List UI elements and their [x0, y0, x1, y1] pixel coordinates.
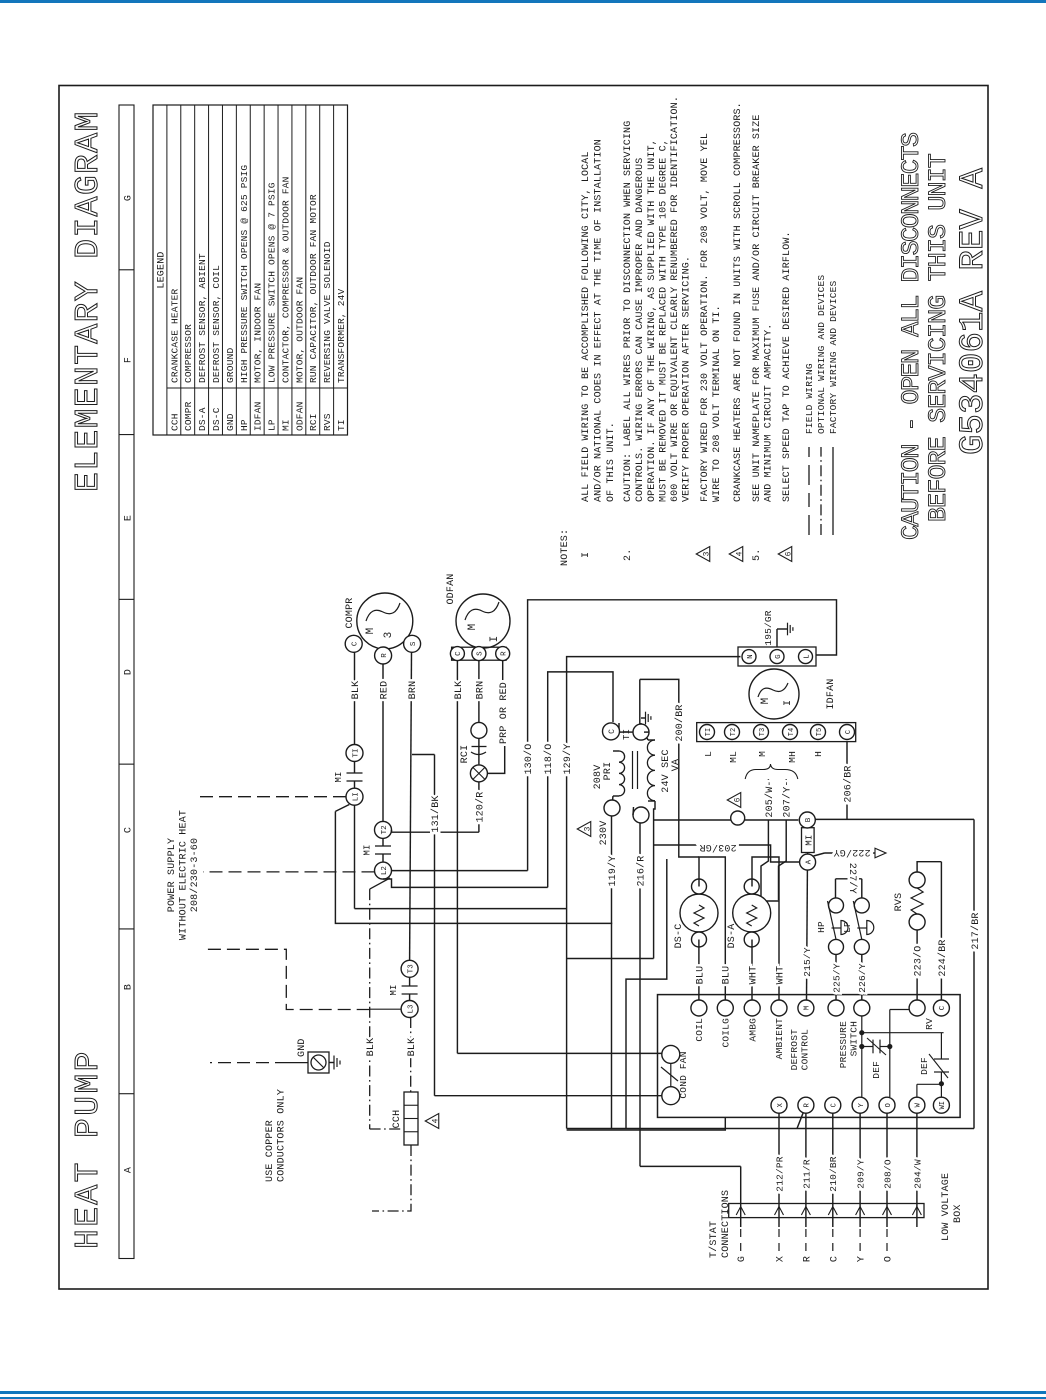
svg-text:L3: L3: [407, 1004, 415, 1014]
svg-text:WHT: WHT: [748, 966, 759, 985]
svg-text:203/GR: 203/GR: [699, 841, 736, 853]
svg-text:G: G: [775, 654, 783, 659]
svg-text:AMBIENT: AMBIENT: [774, 1018, 785, 1059]
svg-text:S: S: [477, 651, 485, 656]
svg-text:R: R: [381, 653, 389, 658]
svg-text:DS-A: DS-A: [197, 407, 208, 431]
svg-text:R: R: [802, 1256, 813, 1262]
svg-text:TI: TI: [352, 748, 360, 757]
svg-text:DEF: DEF: [919, 1057, 930, 1075]
svg-text:L: L: [803, 654, 811, 659]
svg-text:MI: MI: [804, 834, 814, 845]
svg-text:GND: GND: [297, 1038, 308, 1057]
svg-text:POWER SUPPLY: POWER SUPPLY: [167, 838, 178, 912]
svg-text:Y: Y: [858, 1102, 866, 1107]
svg-text:MOTOR, INDOOR FAN: MOTOR, INDOOR FAN: [253, 283, 264, 383]
svg-text:TI: TI: [622, 729, 632, 740]
svg-text:226/Y: 226/Y: [857, 963, 868, 993]
svg-text:COMPRESSOR: COMPRESSOR: [183, 324, 194, 383]
svg-text:RED: RED: [379, 681, 390, 700]
svg-text:T4: T4: [788, 728, 796, 736]
svg-text:BLK: BLK: [351, 681, 362, 700]
svg-text:WIRE TO 208 VOLT TERMINAL ON T: WIRE TO 208 VOLT TERMINAL ON TI.: [712, 305, 723, 502]
svg-text:TRANSFORMER, 24V: TRANSFORMER, 24V: [336, 288, 347, 383]
svg-text:CONTROLS. WIRING ERRORS CAN C: CONTROLS. WIRING ERRORS CAN CAUSE IMPROP…: [635, 158, 646, 502]
svg-text:RUN CAPACITOR, OUTDOOR FAN MOT: RUN CAPACITOR, OUTDOOR FAN MOTOR: [308, 194, 319, 383]
svg-text:212/PR: 212/PR: [774, 1156, 785, 1192]
svg-text:VA: VA: [671, 759, 682, 771]
svg-text:205/W-: 205/W-: [764, 780, 776, 817]
svg-text:R: R: [501, 651, 509, 656]
svg-text:T2: T2: [381, 825, 389, 834]
svg-text:COND FAN: COND FAN: [678, 1051, 689, 1098]
svg-text:F: F: [124, 357, 135, 363]
svg-text:207/Y-: 207/Y-: [782, 780, 794, 817]
svg-text:CONTACTOR, COMPRESSOR & OUTDOO: CONTACTOR, COMPRESSOR & OUTDOOR FAN: [280, 176, 291, 383]
svg-text:T5: T5: [816, 728, 824, 736]
svg-text:COMPR: COMPR: [345, 597, 356, 628]
svg-text:HP: HP: [816, 921, 827, 933]
svg-text:3: 3: [383, 632, 395, 639]
svg-text:OF THIS UNIT.: OF THIS UNIT.: [606, 422, 617, 502]
svg-text:IDFAN: IDFAN: [253, 401, 264, 431]
svg-text:MOTOR, OUTDOOR FAN: MOTOR, OUTDOOR FAN: [294, 277, 305, 383]
svg-text:LI: LI: [352, 792, 360, 801]
svg-text:222/GY: 222/GY: [833, 846, 870, 858]
svg-text:M: M: [365, 628, 377, 635]
svg-text:G: G: [124, 195, 135, 201]
svg-text:M: M: [804, 1005, 812, 1010]
svg-text:MI: MI: [389, 984, 399, 995]
svg-text:CCH: CCH: [169, 413, 180, 431]
svg-text:216/R: 216/R: [635, 855, 647, 886]
svg-text:211/R: 211/R: [801, 1159, 812, 1189]
svg-text:OPTIONAL WIRING AND DEVICES: OPTIONAL WIRING AND DEVICES: [816, 275, 827, 434]
svg-text:MUST BE REMOVED IT MUST BE REP: MUST BE REMOVED IT MUST BE REPLACED WITH…: [659, 139, 670, 502]
svg-text:REVERSING VALVE SOLENOID: REVERSING VALVE SOLENOID: [322, 241, 333, 383]
svg-text:RV: RV: [924, 1018, 935, 1030]
svg-text:MI: MI: [334, 771, 344, 782]
svg-text:ODFAN: ODFAN: [294, 401, 305, 431]
svg-text:C: C: [455, 651, 463, 656]
svg-text:B: B: [805, 817, 813, 822]
svg-text:BRN: BRN: [408, 681, 419, 700]
svg-text:118/O: 118/O: [543, 743, 555, 774]
svg-text:224/BR: 224/BR: [937, 939, 949, 976]
svg-text:WHT: WHT: [775, 966, 786, 985]
svg-text:Y: Y: [857, 1256, 868, 1262]
svg-text:N: N: [747, 654, 755, 659]
svg-text:WITHOUT ELECTRIC HEAT: WITHOUT ELECTRIC HEAT: [179, 810, 190, 940]
svg-text:210/BR: 210/BR: [828, 1156, 839, 1192]
svg-text:L2: L2: [381, 866, 389, 875]
svg-text:CONNECTIONS: CONNECTIONS: [721, 1190, 732, 1258]
svg-text:CAUTION - OPEN ALL DISCONNECTS: CAUTION - OPEN ALL DISCONNECTS: [897, 133, 926, 540]
svg-text:G534061A REV A: G534061A REV A: [955, 167, 993, 455]
svg-text:ALL FIELD WIRING TO BE ACCOMPL: ALL FIELD WIRING TO BE ACCOMPLISHED FOLL…: [581, 151, 592, 502]
svg-text:MI: MI: [280, 419, 291, 431]
svg-text:ML: ML: [728, 751, 739, 763]
svg-text:LOW PRESSURE SWITCH OPENS @ 7: LOW PRESSURE SWITCH OPENS @ 7 PSIG: [267, 182, 278, 383]
svg-text:227/Y: 227/Y: [846, 863, 858, 894]
svg-text:R: R: [804, 1102, 812, 1107]
svg-text:A: A: [805, 859, 813, 864]
svg-text:FIELD WIRING: FIELD WIRING: [804, 363, 815, 434]
svg-text:230V: 230V: [599, 821, 610, 846]
svg-text:W: W: [915, 1102, 923, 1107]
svg-text:T2: T2: [730, 728, 738, 736]
svg-text:131/BK: 131/BK: [430, 795, 442, 832]
svg-text:T3: T3: [407, 964, 415, 974]
svg-text:208/230-3-60: 208/230-3-60: [189, 838, 201, 912]
svg-text:WI: WI: [939, 1101, 947, 1109]
svg-text:COMPR: COMPR: [183, 401, 194, 431]
svg-text:O: O: [885, 1103, 893, 1107]
svg-text:TI: TI: [705, 728, 713, 736]
svg-text:B: B: [124, 984, 135, 990]
svg-text:DEFROST SENSOR, COIL: DEFROST SENSOR, COIL: [211, 265, 222, 383]
svg-text:G: G: [737, 1256, 748, 1262]
svg-text:IDFAN: IDFAN: [826, 678, 837, 709]
svg-text:FACTORY WIRED FOR 230 VOLT OPE: FACTORY WIRED FOR 230 VOLT OPERATION. FO…: [700, 133, 711, 502]
svg-text:AND/OR NATIONAL CODES IN EFFEC: AND/OR NATIONAL CODES IN EFFECT AT THE T…: [593, 139, 605, 502]
svg-text:DEFROST SENSOR, ABIENT: DEFROST SENSOR, ABIENT: [197, 253, 208, 383]
svg-text:CRANKCASE HEATERS ARE NOT FOUN: CRANKCASE HEATERS ARE NOT FOUND IN UNITS…: [733, 102, 744, 502]
svg-text:S: S: [410, 641, 418, 646]
svg-text:LOW VOLTAGE: LOW VOLTAGE: [941, 1173, 952, 1241]
svg-text:M: M: [467, 624, 479, 631]
svg-text:6: 6: [784, 551, 793, 556]
svg-text:C: C: [124, 827, 135, 833]
svg-text:COIL: COIL: [694, 1018, 705, 1042]
svg-text:HIGH PRESSURE SWITCH OPENS @ 6: HIGH PRESSURE SWITCH OPENS @ 625 PSIG: [239, 165, 250, 383]
svg-text:C: C: [939, 1005, 947, 1010]
svg-text:BLU: BLU: [722, 966, 733, 985]
svg-text:BLK: BLK: [454, 681, 465, 700]
svg-text:CONDUCTORS ONLY: CONDUCTORS ONLY: [277, 1089, 288, 1182]
svg-text:206/BR: 206/BR: [842, 765, 854, 802]
svg-text:VERIFY PROPER OPERATION AFTER: VERIFY PROPER OPERATION AFTER SERVICING.: [682, 256, 693, 502]
svg-text:DS-C: DS-C: [674, 924, 685, 949]
svg-text:BLK: BLK: [366, 1038, 377, 1057]
svg-text:RCI: RCI: [460, 745, 471, 764]
svg-text:COILG: COILG: [721, 1018, 732, 1048]
svg-text:A: A: [124, 1167, 135, 1173]
svg-text:LP: LP: [842, 921, 853, 933]
svg-text:208/O: 208/O: [882, 1159, 893, 1189]
svg-text:X: X: [777, 1102, 785, 1107]
svg-text:LEGEND: LEGEND: [156, 251, 167, 288]
svg-text:OPERATION. IF ANY OF THE WIRI: OPERATION. IF ANY OF THE WIRING, AS SUPP…: [647, 139, 658, 502]
svg-text:GND: GND: [225, 413, 236, 431]
svg-text:BEFORE SERVICING THIS UNIT: BEFORE SERVICING THIS UNIT: [924, 153, 953, 522]
svg-text:X: X: [776, 1256, 787, 1262]
svg-text:6: 6: [733, 797, 742, 802]
svg-text:200/BR: 200/BR: [674, 704, 686, 741]
svg-text:T3: T3: [759, 728, 767, 736]
svg-text:SELECT SPEED TAP TO ACHIEVE DE: SELECT SPEED TAP TO ACHIEVE DESIRED AIRF…: [782, 231, 793, 502]
svg-text:5.: 5.: [752, 549, 763, 561]
svg-text:BLU: BLU: [695, 966, 706, 985]
svg-text:CONTROL: CONTROL: [800, 1029, 811, 1070]
svg-text:PRP OR RED: PRP OR RED: [499, 682, 510, 744]
svg-text:FACTORY WIRING AND DEVICES: FACTORY WIRING AND DEVICES: [828, 280, 839, 434]
svg-text:RVS: RVS: [894, 893, 905, 912]
svg-text:3: 3: [702, 551, 711, 556]
svg-text:E: E: [124, 515, 135, 521]
svg-text:C: C: [829, 1256, 840, 1262]
svg-text:BOX: BOX: [953, 1204, 964, 1223]
svg-text:ELEMENTARY DIAGRAM: ELEMENTARY DIAGRAM: [70, 110, 107, 492]
svg-text:RCI: RCI: [308, 413, 319, 431]
svg-text:MH: MH: [787, 751, 798, 763]
svg-text:AMBG: AMBG: [748, 1018, 759, 1042]
svg-text:223/O: 223/O: [913, 945, 925, 976]
svg-text:ODFAN: ODFAN: [446, 573, 457, 604]
svg-text:C: C: [831, 1103, 839, 1107]
svg-text:225/Y: 225/Y: [831, 963, 842, 993]
svg-text:DS-C: DS-C: [211, 407, 222, 431]
svg-text:I: I: [783, 700, 794, 706]
svg-text:C: C: [608, 729, 617, 734]
svg-text:PRESSURE: PRESSURE: [838, 1021, 849, 1068]
svg-text:MI: MI: [363, 844, 373, 855]
svg-text:L: L: [703, 751, 714, 757]
svg-text:4: 4: [735, 551, 744, 556]
svg-text:M: M: [757, 751, 768, 757]
svg-text:I: I: [581, 552, 592, 558]
svg-text:2.: 2.: [623, 549, 634, 561]
svg-text:HP: HP: [239, 419, 250, 431]
svg-text:NOTES:: NOTES:: [560, 529, 571, 566]
svg-text:M: M: [760, 698, 772, 705]
svg-text:600 VOLT WIRE OR EQUIVALENT CL: 600 VOLT WIRE OR EQUIVALENT CLEARLY RENU…: [670, 96, 681, 502]
svg-text:RVS: RVS: [322, 413, 333, 431]
svg-text:USE COPPER: USE COPPER: [265, 1120, 276, 1182]
svg-text:CRANKCASE HEATER: CRANKCASE HEATER: [169, 288, 180, 383]
svg-text:119/Y: 119/Y: [607, 855, 619, 886]
svg-text:H: H: [813, 751, 824, 757]
svg-text:217/BR: 217/BR: [970, 912, 982, 949]
svg-text:GROUND: GROUND: [225, 347, 236, 383]
svg-text:SEE UNIT NAMEPLATE FOR MAXIMUM: SEE UNIT NAMEPLATE FOR MAXIMUM FUSE AND/…: [751, 114, 763, 502]
svg-text:120/R: 120/R: [474, 791, 486, 822]
svg-text:129/Y: 129/Y: [562, 743, 574, 774]
svg-text:HEAT PUMP: HEAT PUMP: [70, 1049, 107, 1249]
svg-text:TI: TI: [336, 419, 347, 431]
svg-text:DEFROST: DEFROST: [789, 1029, 800, 1070]
svg-text:BRN: BRN: [475, 681, 486, 700]
svg-text:PRI: PRI: [603, 762, 614, 781]
svg-text:LP: LP: [267, 419, 278, 431]
svg-text:130/O: 130/O: [523, 743, 535, 774]
svg-text:C: C: [352, 641, 360, 646]
svg-text:4: 4: [431, 1118, 440, 1123]
svg-text:DS-A: DS-A: [727, 924, 738, 949]
svg-text:I: I: [489, 636, 501, 643]
svg-text:215/Y: 215/Y: [802, 947, 813, 977]
svg-text:209/Y: 209/Y: [856, 1159, 867, 1189]
svg-text:CAUTION: LABEL ALL WIRES PRIOR: CAUTION: LABEL ALL WIRES PRIOR TO DISCON…: [623, 121, 634, 502]
svg-text:C: C: [845, 730, 853, 734]
svg-text:DEF: DEF: [871, 1061, 882, 1079]
svg-text:O: O: [884, 1256, 895, 1262]
svg-text:AND MINIMUM CIRCUIT AMPACITY.: AND MINIMUM CIRCUIT AMPACITY.: [764, 324, 775, 502]
svg-text:SWITCH: SWITCH: [849, 1021, 860, 1056]
svg-text:T/STAT: T/STAT: [708, 1221, 720, 1258]
svg-text:CCH: CCH: [392, 1110, 403, 1129]
svg-text:BLK: BLK: [407, 1038, 418, 1057]
svg-text:D: D: [124, 669, 135, 675]
svg-text:195/GR: 195/GR: [763, 610, 774, 646]
svg-text:3: 3: [583, 826, 592, 831]
svg-text:204/W: 204/W: [912, 1159, 923, 1189]
